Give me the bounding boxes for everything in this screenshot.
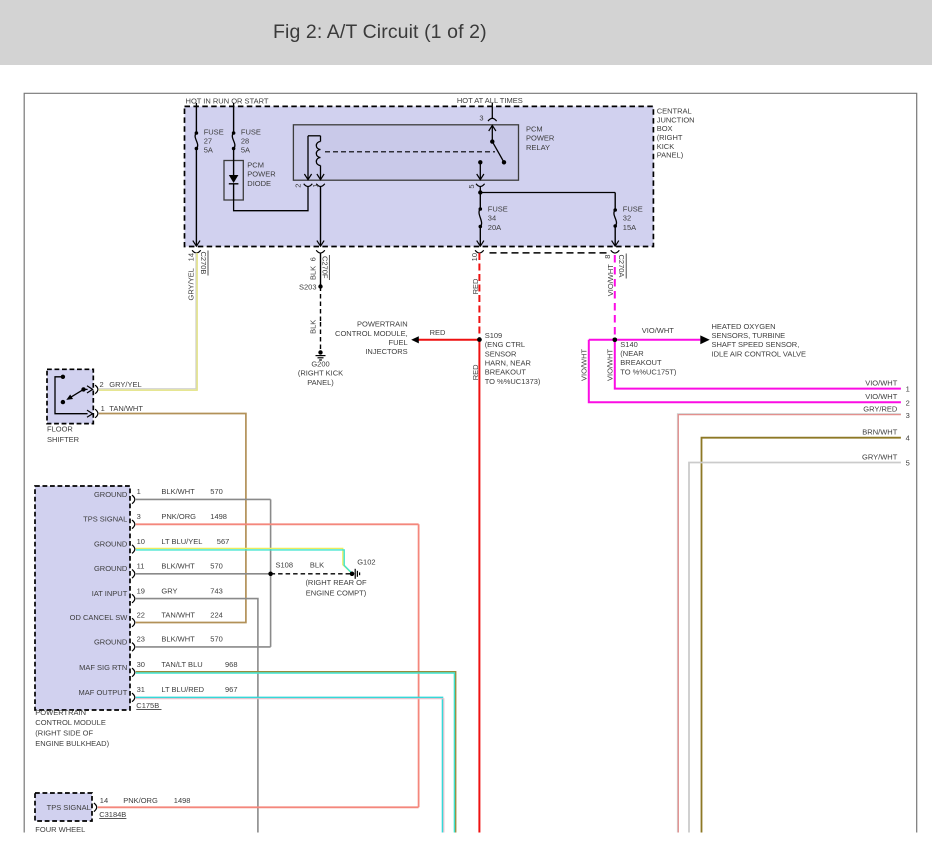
svg-text:3: 3: [906, 411, 910, 420]
svg-text:TO %%UC1373): TO %%UC1373): [485, 377, 541, 386]
svg-text:VIO/WHT: VIO/WHT: [606, 349, 615, 381]
svg-text:VIO/WHT: VIO/WHT: [865, 378, 897, 387]
svg-text:224: 224: [210, 610, 223, 619]
svg-text:PNK/ORG: PNK/ORG: [123, 796, 158, 805]
svg-text:CONTROL MODULE,: CONTROL MODULE,: [335, 329, 408, 338]
svg-text:FUSE: FUSE: [623, 205, 643, 214]
svg-text:VIO/WHT: VIO/WHT: [580, 349, 589, 381]
svg-text:CONTROL MODULE: CONTROL MODULE: [35, 718, 106, 727]
svg-text:POWER: POWER: [526, 134, 555, 143]
svg-text:27: 27: [204, 137, 212, 146]
svg-text:1: 1: [311, 184, 320, 188]
svg-text:C175B: C175B: [136, 701, 159, 710]
svg-text:31: 31: [137, 685, 145, 694]
svg-text:FLOOR: FLOOR: [47, 425, 73, 434]
svg-text:TAN/LT BLU: TAN/LT BLU: [161, 660, 202, 669]
svg-text:VIO/WHT: VIO/WHT: [606, 264, 615, 296]
svg-text:GROUND: GROUND: [94, 490, 128, 499]
svg-text:RED: RED: [471, 364, 480, 380]
svg-text:VIO/WHT: VIO/WHT: [642, 326, 674, 335]
svg-text:2: 2: [100, 380, 104, 389]
svg-text:(RIGHT REAR OF: (RIGHT REAR OF: [305, 578, 367, 587]
svg-text:5A: 5A: [241, 146, 250, 155]
svg-text:S140: S140: [620, 340, 638, 349]
svg-text:SENSOR: SENSOR: [485, 349, 517, 358]
svg-text:PANEL): PANEL): [307, 378, 334, 387]
svg-text:FUSE: FUSE: [204, 127, 224, 136]
svg-text:968: 968: [225, 660, 238, 669]
svg-text:5: 5: [467, 184, 476, 188]
svg-text:BOX: BOX: [657, 124, 673, 133]
svg-text:C3184B: C3184B: [99, 810, 126, 819]
svg-text:INJECTORS: INJECTORS: [365, 347, 407, 356]
svg-text:C270A: C270A: [617, 255, 626, 278]
svg-text:FUEL: FUEL: [389, 338, 408, 347]
svg-text:LT BLU/RED: LT BLU/RED: [161, 685, 204, 694]
svg-text:(RIGHT: (RIGHT: [657, 133, 683, 142]
svg-text:570: 570: [210, 487, 223, 496]
svg-text:14: 14: [187, 253, 196, 261]
svg-text:GROUND: GROUND: [94, 540, 128, 549]
svg-text:S203: S203: [299, 283, 317, 292]
svg-text:(NEAR: (NEAR: [620, 349, 644, 358]
svg-text:S109: S109: [485, 331, 503, 340]
svg-text:PANEL): PANEL): [657, 151, 684, 160]
svg-text:PNK/ORG: PNK/ORG: [161, 512, 196, 521]
svg-text:OD CANCEL SW: OD CANCEL SW: [70, 613, 129, 622]
svg-text:GRY: GRY: [161, 586, 177, 595]
svg-text:GROUND: GROUND: [94, 637, 128, 646]
svg-text:34: 34: [488, 214, 496, 223]
svg-text:RELAY: RELAY: [526, 143, 550, 152]
svg-text:TPS SIGNAL: TPS SIGNAL: [83, 515, 127, 524]
svg-text:5A: 5A: [204, 146, 213, 155]
svg-text:1498: 1498: [174, 796, 191, 805]
svg-text:2: 2: [906, 398, 910, 407]
svg-text:14: 14: [100, 796, 108, 805]
svg-text:GROUND: GROUND: [94, 564, 128, 573]
svg-text:IAT INPUT: IAT INPUT: [92, 589, 128, 598]
svg-text:GRY/RED: GRY/RED: [863, 405, 898, 414]
svg-text:BREAKOUT: BREAKOUT: [620, 358, 662, 367]
svg-text:POWERTRAIN: POWERTRAIN: [35, 708, 86, 717]
svg-text:567: 567: [217, 537, 230, 546]
svg-text:SHIFTER: SHIFTER: [47, 435, 80, 444]
svg-text:HOT IN RUN OR START: HOT IN RUN OR START: [186, 96, 269, 105]
svg-text:3: 3: [137, 512, 141, 521]
svg-text:MAF SIG RTN: MAF SIG RTN: [79, 663, 127, 672]
svg-text:32: 32: [623, 214, 631, 223]
svg-text:23: 23: [137, 635, 145, 644]
svg-text:BLK: BLK: [309, 266, 318, 280]
svg-text:HOT AT ALL TIMES: HOT AT ALL TIMES: [457, 96, 523, 105]
svg-text:1: 1: [101, 404, 105, 413]
svg-text:TO %%UC175T): TO %%UC175T): [620, 367, 677, 376]
svg-text:GRY/WHT: GRY/WHT: [862, 452, 898, 461]
svg-text:10: 10: [470, 253, 479, 261]
svg-text:SHAFT SPEED SENSOR,: SHAFT SPEED SENSOR,: [712, 340, 800, 349]
svg-text:1: 1: [137, 487, 141, 496]
svg-text:ENGINE BULKHEAD): ENGINE BULKHEAD): [35, 739, 109, 748]
svg-text:FUSE: FUSE: [241, 127, 261, 136]
svg-text:MAF OUTPUT: MAF OUTPUT: [79, 688, 128, 697]
svg-text:19: 19: [137, 586, 145, 595]
svg-text:BLK/WHT: BLK/WHT: [161, 635, 195, 644]
svg-text:20A: 20A: [488, 223, 501, 232]
svg-text:PCM: PCM: [247, 160, 264, 169]
svg-text:(RIGHT SIDE OF: (RIGHT SIDE OF: [35, 729, 93, 738]
svg-text:1: 1: [906, 385, 910, 394]
svg-text:30: 30: [137, 660, 145, 669]
svg-text:3: 3: [479, 113, 483, 122]
svg-text:5: 5: [906, 459, 910, 468]
svg-text:(RIGHT KICK: (RIGHT KICK: [298, 369, 343, 378]
svg-text:570: 570: [210, 635, 223, 644]
svg-text:CENTRAL: CENTRAL: [657, 107, 692, 116]
svg-text:BRN/WHT: BRN/WHT: [862, 427, 897, 436]
svg-text:POWER: POWER: [247, 170, 276, 179]
svg-text:ENGINE COMPT): ENGINE COMPT): [306, 588, 367, 597]
svg-text:TPS SIGNAL: TPS SIGNAL: [47, 803, 91, 812]
svg-text:LT BLU/YEL: LT BLU/YEL: [161, 537, 202, 546]
svg-text:22: 22: [137, 610, 145, 619]
svg-text:FUSE: FUSE: [488, 205, 508, 214]
svg-text:HEATED OXYGEN: HEATED OXYGEN: [712, 322, 776, 331]
svg-text:PCM: PCM: [526, 125, 543, 134]
svg-text:VIO/WHT: VIO/WHT: [865, 392, 897, 401]
svg-text:RED: RED: [430, 328, 446, 337]
svg-text:BLK/WHT: BLK/WHT: [161, 487, 195, 496]
svg-text:JUNCTION: JUNCTION: [657, 115, 695, 124]
svg-text:DIODE: DIODE: [247, 179, 271, 188]
svg-text:BLK/WHT: BLK/WHT: [161, 562, 195, 571]
svg-text:10: 10: [137, 537, 145, 546]
svg-text:S108: S108: [276, 561, 294, 570]
svg-text:1498: 1498: [210, 512, 227, 521]
svg-text:6: 6: [309, 257, 318, 261]
svg-text:BLK: BLK: [310, 561, 324, 570]
svg-text:HARN, NEAR: HARN, NEAR: [485, 359, 532, 368]
svg-text:TAN/WHT: TAN/WHT: [109, 404, 143, 413]
svg-text:967: 967: [225, 685, 238, 694]
svg-text:11: 11: [137, 562, 145, 571]
svg-text:KICK: KICK: [657, 142, 675, 151]
svg-text:8: 8: [603, 255, 612, 259]
svg-text:GRY/YEL: GRY/YEL: [109, 380, 141, 389]
svg-text:570: 570: [210, 562, 223, 571]
svg-text:POWERTRAIN: POWERTRAIN: [357, 320, 408, 329]
svg-text:(ENG CTRL: (ENG CTRL: [485, 340, 525, 349]
svg-text:C270B: C270B: [199, 252, 208, 275]
svg-text:RED: RED: [471, 278, 480, 294]
svg-text:4: 4: [906, 434, 910, 443]
svg-text:743: 743: [210, 586, 223, 595]
svg-text:IDLE AIR CONTROL VALVE: IDLE AIR CONTROL VALVE: [712, 349, 806, 358]
svg-text:C270F: C270F: [321, 256, 330, 279]
svg-text:G200: G200: [311, 359, 329, 368]
svg-text:TAN/WHT: TAN/WHT: [161, 610, 195, 619]
svg-text:FOUR WHEEL: FOUR WHEEL: [35, 825, 85, 834]
svg-text:BLK: BLK: [309, 320, 318, 334]
svg-text:2: 2: [294, 184, 303, 188]
svg-text:GRY/YEL: GRY/YEL: [187, 268, 196, 300]
svg-text:G102: G102: [357, 557, 375, 566]
svg-text:28: 28: [241, 137, 249, 146]
svg-text:BREAKOUT: BREAKOUT: [485, 368, 527, 377]
svg-text:15A: 15A: [623, 223, 636, 232]
svg-text:SENSORS, TURBINE: SENSORS, TURBINE: [712, 331, 786, 340]
